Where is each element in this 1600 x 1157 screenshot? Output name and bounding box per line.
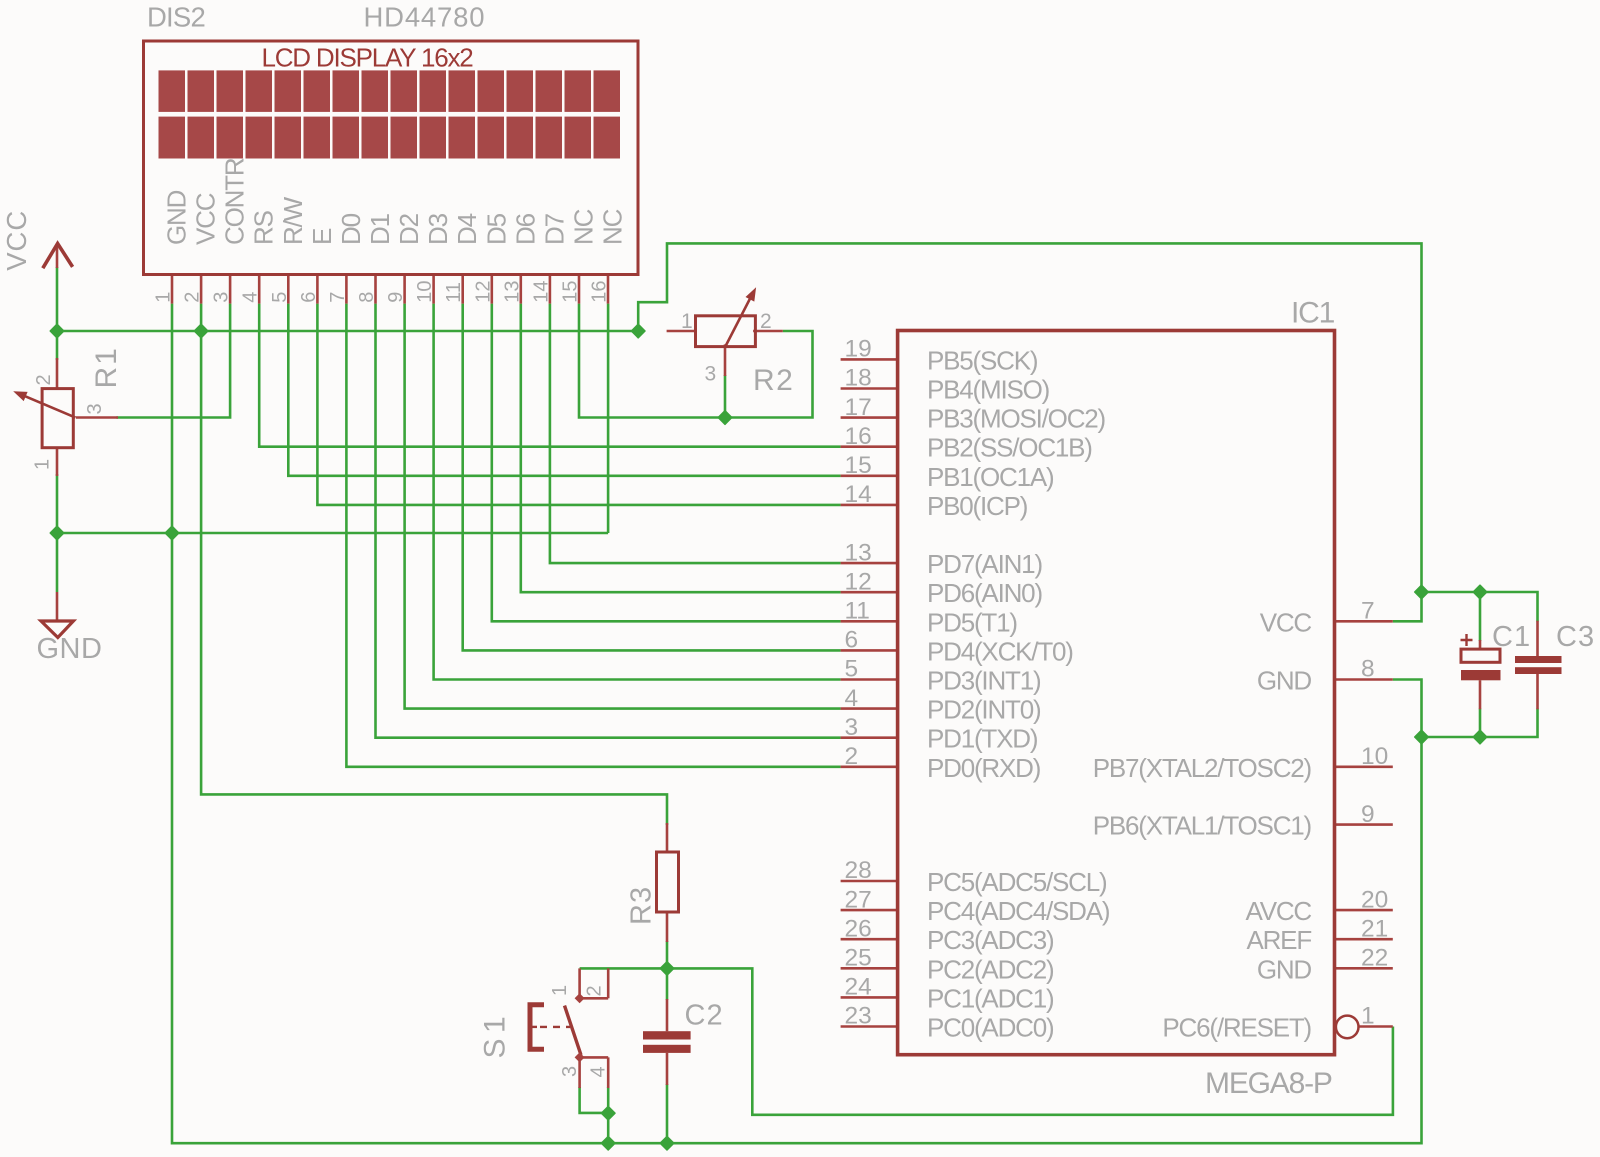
svg-text:PC3(ADC3): PC3(ADC3) bbox=[927, 925, 1054, 955]
svg-text:2: 2 bbox=[584, 985, 606, 996]
svg-text:25: 25 bbox=[845, 945, 872, 972]
svg-text:C1: C1 bbox=[1492, 621, 1531, 653]
svg-text:PD3(INT1): PD3(INT1) bbox=[927, 666, 1041, 696]
svg-text:2: 2 bbox=[760, 310, 772, 333]
svg-text:RS: RS bbox=[249, 210, 279, 245]
svg-text:PB3(MOSI/OC2): PB3(MOSI/OC2) bbox=[927, 404, 1106, 434]
svg-text:PB0(ICP): PB0(ICP) bbox=[927, 491, 1028, 521]
svg-text:11: 11 bbox=[845, 598, 870, 625]
svg-text:1: 1 bbox=[681, 310, 693, 333]
svg-text:PD2(INT0): PD2(INT0) bbox=[927, 695, 1041, 725]
svg-text:13: 13 bbox=[501, 281, 523, 303]
svg-text:3: 3 bbox=[211, 292, 233, 303]
svg-text:1: 1 bbox=[153, 292, 175, 303]
svg-text:1: 1 bbox=[549, 985, 571, 996]
svg-text:D2: D2 bbox=[394, 213, 424, 245]
svg-text:7: 7 bbox=[1361, 598, 1375, 625]
svg-text:D0: D0 bbox=[336, 213, 366, 245]
svg-text:PD5(T1): PD5(T1) bbox=[927, 607, 1017, 637]
svg-text:D5: D5 bbox=[481, 213, 511, 245]
svg-text:10: 10 bbox=[414, 281, 436, 303]
svg-text:3: 3 bbox=[84, 403, 106, 414]
svg-text:CONTR: CONTR bbox=[220, 158, 250, 245]
svg-text:9: 9 bbox=[385, 292, 407, 303]
svg-text:19: 19 bbox=[845, 336, 872, 363]
svg-text:S1: S1 bbox=[479, 1011, 512, 1059]
svg-text:PD6(AIN0): PD6(AIN0) bbox=[927, 578, 1042, 608]
svg-text:22: 22 bbox=[1361, 945, 1388, 972]
svg-text:PC2(ADC2): PC2(ADC2) bbox=[927, 954, 1054, 984]
svg-text:VCC: VCC bbox=[1260, 607, 1312, 637]
svg-text:1: 1 bbox=[32, 459, 54, 470]
svg-text:12: 12 bbox=[845, 568, 872, 595]
svg-text:GND: GND bbox=[37, 633, 103, 665]
svg-text:PD1(TXD): PD1(TXD) bbox=[927, 724, 1038, 754]
svg-text:PC4(ADC4/SDA): PC4(ADC4/SDA) bbox=[927, 896, 1110, 926]
svg-text:R2: R2 bbox=[753, 364, 794, 397]
svg-text:5: 5 bbox=[269, 292, 291, 303]
svg-text:R/W: R/W bbox=[278, 196, 308, 245]
svg-text:PB2(SS/OC1B): PB2(SS/OC1B) bbox=[927, 433, 1092, 463]
svg-text:26: 26 bbox=[845, 915, 872, 942]
svg-text:9: 9 bbox=[1361, 801, 1375, 828]
svg-text:PD4(XCK/T0): PD4(XCK/T0) bbox=[927, 636, 1073, 666]
svg-text:NC: NC bbox=[569, 209, 599, 245]
svg-text:16: 16 bbox=[589, 281, 611, 303]
svg-text:10: 10 bbox=[1361, 743, 1388, 770]
svg-text:11: 11 bbox=[443, 282, 465, 303]
svg-text:3: 3 bbox=[559, 1066, 581, 1077]
svg-text:2: 2 bbox=[845, 743, 859, 770]
svg-text:6: 6 bbox=[298, 292, 320, 303]
svg-text:R1: R1 bbox=[90, 346, 123, 388]
svg-text:HD44780: HD44780 bbox=[364, 2, 486, 33]
svg-text:2: 2 bbox=[182, 292, 204, 303]
svg-text:15: 15 bbox=[845, 452, 872, 479]
svg-text:20: 20 bbox=[1361, 886, 1388, 913]
svg-text:PB5(SCK): PB5(SCK) bbox=[927, 345, 1038, 375]
svg-text:15: 15 bbox=[560, 281, 582, 303]
svg-text:7: 7 bbox=[327, 292, 349, 303]
svg-text:3: 3 bbox=[705, 363, 717, 386]
svg-text:D4: D4 bbox=[452, 213, 482, 245]
svg-text:AREF: AREF bbox=[1246, 925, 1311, 955]
svg-text:17: 17 bbox=[845, 394, 872, 421]
svg-text:8: 8 bbox=[356, 292, 378, 303]
svg-text:28: 28 bbox=[845, 857, 872, 884]
svg-text:D6: D6 bbox=[510, 213, 540, 245]
svg-text:6: 6 bbox=[845, 627, 859, 654]
svg-text:PB4(MISO): PB4(MISO) bbox=[927, 375, 1050, 405]
svg-text:1: 1 bbox=[1361, 1003, 1375, 1030]
svg-text:PC5(ADC5/SCL): PC5(ADC5/SCL) bbox=[927, 867, 1107, 897]
svg-text:D1: D1 bbox=[365, 213, 395, 245]
svg-text:LCD DISPLAY 16x2: LCD DISPLAY 16x2 bbox=[261, 43, 473, 73]
svg-text:GND: GND bbox=[1257, 954, 1312, 984]
svg-text:18: 18 bbox=[845, 365, 872, 392]
svg-text:PB1(OC1A): PB1(OC1A) bbox=[927, 462, 1054, 492]
svg-text:PD0(RXD): PD0(RXD) bbox=[927, 753, 1041, 783]
svg-text:2: 2 bbox=[33, 374, 55, 385]
svg-text:NC: NC bbox=[598, 209, 628, 245]
svg-text:14: 14 bbox=[845, 481, 872, 508]
svg-text:4: 4 bbox=[588, 1066, 610, 1077]
svg-text:3: 3 bbox=[845, 714, 859, 741]
svg-text:GND: GND bbox=[162, 190, 192, 245]
svg-text:PC1(ADC1): PC1(ADC1) bbox=[927, 983, 1054, 1013]
svg-text:IC1: IC1 bbox=[1291, 297, 1335, 330]
svg-text:D7: D7 bbox=[539, 213, 569, 245]
svg-text:12: 12 bbox=[472, 281, 494, 303]
svg-text:4: 4 bbox=[845, 685, 859, 712]
svg-text:27: 27 bbox=[845, 886, 872, 913]
svg-text:C3: C3 bbox=[1556, 621, 1595, 653]
svg-text:4: 4 bbox=[240, 292, 262, 303]
svg-text:AVCC: AVCC bbox=[1245, 896, 1311, 926]
svg-text:13: 13 bbox=[845, 539, 872, 566]
svg-text:PB6(XTAL1/TOSC1): PB6(XTAL1/TOSC1) bbox=[1093, 811, 1312, 841]
svg-text:PD7(AIN1): PD7(AIN1) bbox=[927, 549, 1042, 579]
svg-text:DIS2: DIS2 bbox=[147, 2, 205, 33]
svg-text:PC0(ADC0): PC0(ADC0) bbox=[927, 1013, 1054, 1043]
svg-text:24: 24 bbox=[845, 974, 872, 1001]
svg-text:C2: C2 bbox=[685, 1000, 724, 1032]
svg-text:PB7(XTAL2/TOSC2): PB7(XTAL2/TOSC2) bbox=[1093, 753, 1312, 783]
svg-text:14: 14 bbox=[530, 281, 552, 303]
svg-text:VCC: VCC bbox=[1, 210, 32, 271]
svg-text:PC6(/RESET): PC6(/RESET) bbox=[1162, 1013, 1311, 1043]
svg-text:MEGA8-P: MEGA8-P bbox=[1205, 1067, 1332, 1100]
svg-text:8: 8 bbox=[1361, 656, 1375, 683]
svg-text:R3: R3 bbox=[626, 886, 658, 925]
svg-text:E: E bbox=[307, 228, 337, 245]
svg-text:GND: GND bbox=[1257, 666, 1312, 696]
svg-text:D3: D3 bbox=[423, 213, 453, 245]
svg-text:16: 16 bbox=[845, 423, 872, 450]
svg-text:5: 5 bbox=[845, 656, 859, 683]
svg-text:VCC: VCC bbox=[191, 193, 221, 245]
svg-text:23: 23 bbox=[845, 1003, 872, 1030]
svg-text:21: 21 bbox=[1361, 915, 1388, 942]
